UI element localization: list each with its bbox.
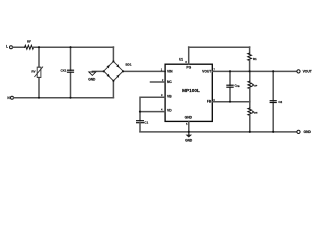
svg-text:GND: GND <box>88 77 96 81</box>
node bridge negative corner <box>103 70 105 72</box>
svg-text:MP100L: MP100L <box>182 88 200 93</box>
svg-text:U1: U1 <box>179 57 183 61</box>
node L-RV top rail junction <box>38 46 40 48</box>
svg-text:FB: FB <box>207 100 212 104</box>
wire RF to bridge top corner <box>34 46 114 48</box>
terminal N <box>11 96 14 99</box>
node bridge AC top corner <box>112 60 114 62</box>
svg-text:RV: RV <box>31 70 35 74</box>
op-amp U1 body MP100L <box>165 64 212 121</box>
node CFB top on VOUT rail <box>229 70 231 72</box>
svg-text:RF: RF <box>27 40 31 44</box>
svg-text:L: L <box>6 45 8 49</box>
wire bottom rail <box>14 97 114 99</box>
svg-text:C2: C2 <box>278 100 282 104</box>
capacitor CFB branch wire top <box>229 71 231 85</box>
node CX1 bottom rail junction <box>69 97 71 99</box>
node VD-C1 junction <box>139 111 141 113</box>
wire IC GND pin down <box>188 121 190 134</box>
ground arrow at IC GND pin <box>186 135 193 138</box>
wire VB pin to C1 branch <box>140 97 165 120</box>
node CX1 top rail junction <box>69 46 71 48</box>
svg-text:CX1: CX1 <box>60 69 66 73</box>
svg-text:VD: VD <box>167 109 172 113</box>
svg-text:VIN: VIN <box>167 70 173 74</box>
capacitor CX1 branch wire top <box>70 47 72 70</box>
capacitor CX1 branch wire bottom <box>70 72 72 97</box>
ground symbol at bridge <box>89 72 96 76</box>
wire top rail down to bridge <box>112 47 114 61</box>
svg-text:C1: C1 <box>144 120 148 124</box>
terminal VOUT <box>297 70 300 73</box>
wire bridge left corner to ground <box>92 70 103 73</box>
node RV bottom rail junction <box>38 97 40 99</box>
node IC GND on ground rail <box>188 131 190 133</box>
node CFB bottom on FB net <box>229 101 231 103</box>
capacitor C2 branch wire top <box>272 71 274 101</box>
varistor RV branch wire bottom <box>38 78 40 98</box>
resistor R1 <box>249 47 251 53</box>
varistor RV branch wire top <box>38 47 40 67</box>
wire C1 to GND rail <box>139 123 141 132</box>
wire PG pin up <box>188 47 190 64</box>
svg-text:GND: GND <box>304 130 312 134</box>
diode D2 top-right <box>116 64 121 69</box>
resistor RUP <box>249 71 251 81</box>
svg-text:GND: GND <box>185 139 193 143</box>
resistor RDN <box>249 102 251 109</box>
capacitor C1 <box>137 120 144 122</box>
svg-text:VOUT: VOUT <box>303 69 312 73</box>
svg-text:PG: PG <box>186 65 191 69</box>
node C2 top on VOUT rail <box>272 70 274 72</box>
terminal GND <box>297 130 300 133</box>
resistor RF <box>25 45 34 49</box>
wire FB <box>212 101 249 103</box>
capacitor C2 <box>270 100 276 102</box>
wire bridge right corner to VIN <box>123 70 165 72</box>
svg-text:VB: VB <box>167 95 172 99</box>
terminal L <box>10 46 13 49</box>
diode D4 bottom-right <box>116 73 121 78</box>
wire VD pin <box>140 111 165 113</box>
capacitor CX1 <box>68 69 74 71</box>
svg-text:R1: R1 <box>253 57 257 61</box>
capacitor CFB branch wire bottom <box>229 87 231 101</box>
pin NC stub <box>151 81 166 83</box>
bridge rectifier BD1 <box>104 61 123 80</box>
node bridge AC bottom corner <box>112 80 114 82</box>
wire PG top run <box>189 46 250 48</box>
diode D1 top-left <box>106 64 111 69</box>
varistor RV <box>37 67 41 77</box>
capacitor C2 branch wire bottom <box>272 103 274 132</box>
node C2 bottom on ground rail <box>272 131 274 133</box>
capacitor CFB <box>227 84 233 86</box>
node bridge positive corner <box>122 70 124 72</box>
wire bottom rail up to bridge <box>112 81 114 98</box>
svg-text:NC: NC <box>167 80 172 84</box>
svg-text:BD1: BD1 <box>126 62 132 66</box>
diode D3 bottom-left <box>106 74 111 79</box>
node R1-RUP on VOUT rail <box>249 70 251 72</box>
svg-text:GND: GND <box>185 116 193 120</box>
node RDN bottom on ground rail <box>249 131 251 133</box>
wire VOUT rail <box>212 70 297 72</box>
svg-text:VOUT: VOUT <box>202 69 211 73</box>
wire GND rail <box>140 131 297 133</box>
wire L to RF <box>13 46 25 48</box>
